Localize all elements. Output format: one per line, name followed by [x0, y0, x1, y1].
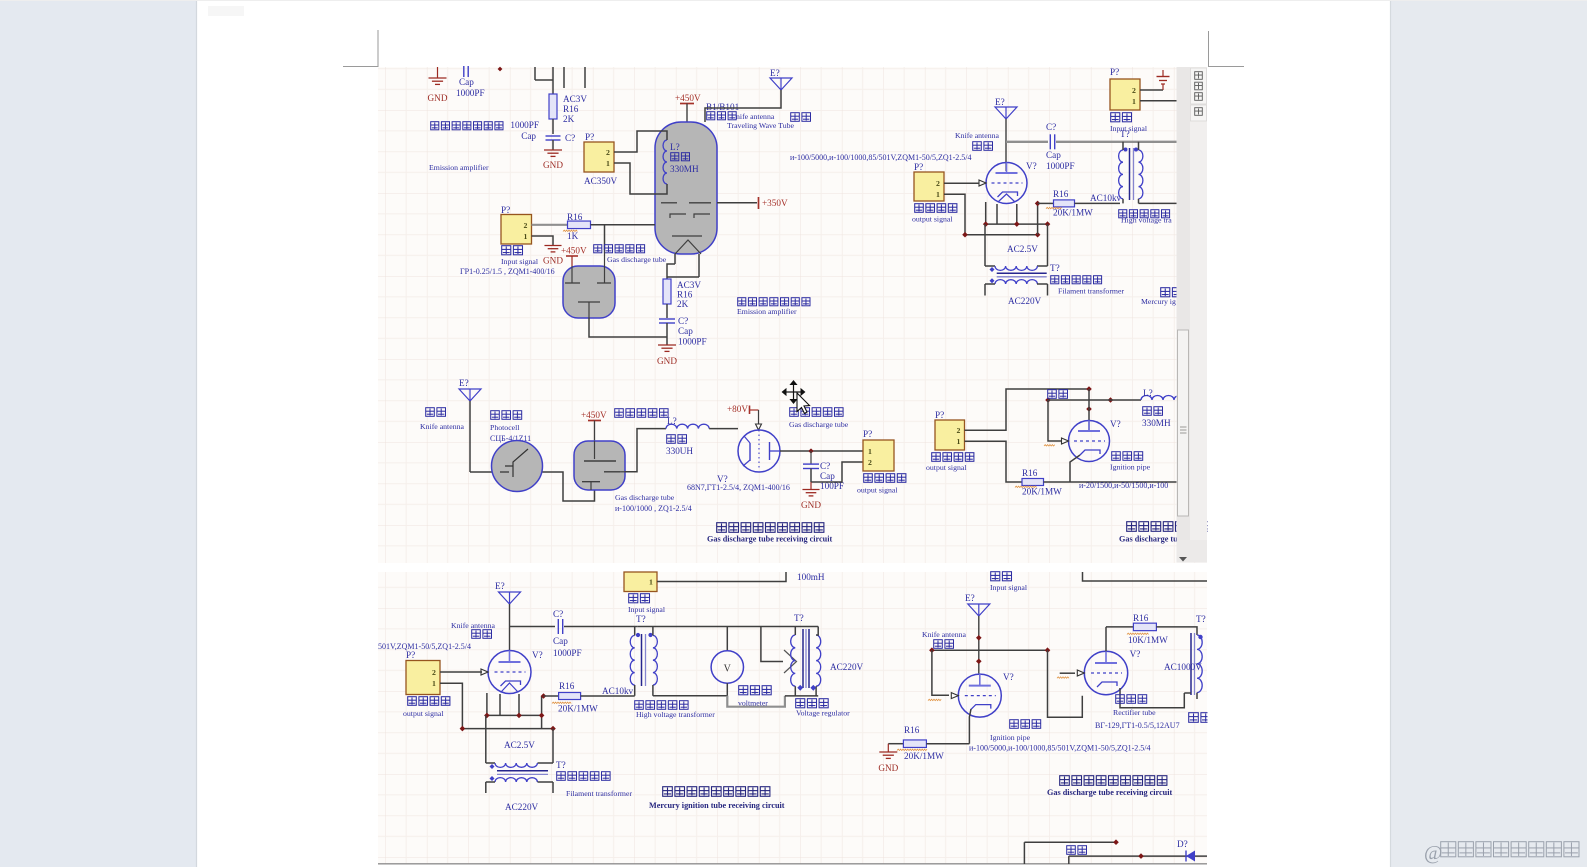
svg-text:10K/1MW: 10K/1MW — [1128, 635, 1168, 645]
wire port I pin1 down — [440, 683, 553, 728]
stub to tube1 grid J — [932, 650, 949, 695]
scrollbar thumb — [1178, 330, 1189, 516]
capacitor C? 1000PF A2 — [546, 135, 561, 137]
svg-text:Voltage regulator: Voltage regulator — [796, 709, 850, 718]
svg-text:E?: E? — [770, 68, 780, 78]
svg-text:V?: V? — [1110, 419, 1121, 429]
svg-text:Knife antenna: Knife antenna — [420, 422, 464, 431]
tube heater — [675, 240, 701, 254]
svg-text:Traveling Wave Tube: Traveling Wave Tube — [727, 121, 794, 130]
wire R16 right AC10kv — [1075, 202, 1121, 204]
wire inductor to tube D2 — [709, 428, 738, 430]
ground GND A1 — [437, 67, 439, 78]
svg-text:68N7,ΓT1-2.5/4, ZQM1-400/16: 68N7,ΓT1-2.5/4, ZQM1-400/16 — [687, 483, 790, 492]
svg-text:1: 1 — [649, 578, 653, 587]
svg-text:1: 1 — [868, 447, 872, 456]
svg-text:501V,ZQM1-50/5,ZQ1-2.5/4: 501V,ZQM1-50/5,ZQ1-2.5/4 — [378, 642, 471, 651]
rail I y715 — [487, 714, 542, 716]
svg-text:330MH: 330MH — [1142, 418, 1171, 428]
svg-text:Cap: Cap — [553, 636, 568, 646]
svg-text:AC350V: AC350V — [584, 176, 618, 186]
svg-text:Gas discharge tube receiving c: Gas discharge tube receiving circuit — [1047, 788, 1172, 797]
capacitor C? Cap 100PF D — [810, 451, 812, 464]
svg-text:Input signal: Input signal — [990, 583, 1028, 592]
svg-text:Input signal: Input signal — [628, 605, 666, 614]
lower schematic sheet — [378, 572, 1207, 864]
lower sheet right clip — [1208, 572, 1216, 864]
svg-text:AC3V: AC3V — [563, 94, 587, 104]
svg-text:Cap: Cap — [820, 471, 835, 481]
wire R16 to tube grid — [591, 224, 656, 226]
svg-text:и-100/1000 , ZQ1-2.5/4: и-100/1000 , ZQ1-2.5/4 — [615, 504, 692, 513]
svg-text:1: 1 — [957, 437, 961, 446]
rail 天线 J — [932, 649, 1048, 651]
top hairline — [0, 0, 1587, 2]
svg-text:B1/B101: B1/B101 — [706, 102, 740, 112]
svg-text:L?: L? — [667, 416, 677, 426]
svg-text:R16: R16 — [1022, 468, 1038, 478]
wire K lower — [1069, 855, 1207, 857]
title 水银引燃管接收电路 — [663, 787, 673, 797]
labels 引燃管 J — [1010, 720, 1019, 729]
label 行波管发射电路 A — [431, 122, 439, 130]
title 气体放电管接收电路 J — [1060, 776, 1070, 786]
capacitor C? Cap 1000PF I — [557, 619, 559, 634]
svg-text:1000PF: 1000PF — [553, 648, 582, 658]
svg-text:P?: P? — [406, 650, 415, 660]
svg-text:1: 1 — [524, 232, 528, 241]
label 输入 Input signal B — [502, 246, 511, 255]
svg-text:ВГ-129,ГT1-0.5/5,12AU7: ВГ-129,ГT1-0.5/5,12AU7 — [1095, 721, 1180, 730]
wire R16 right E — [1044, 481, 1177, 483]
traveling wave tube V (rounded) — [655, 122, 717, 254]
svg-text:output signal: output signal — [912, 215, 953, 224]
svg-text:R16: R16 — [1133, 613, 1149, 623]
svg-text:output signal: output signal — [857, 486, 898, 495]
svg-text:2: 2 — [957, 426, 961, 435]
svg-text:R16: R16 — [1053, 189, 1069, 199]
svg-text:T?: T? — [1050, 263, 1060, 273]
svg-text:2K: 2K — [677, 299, 689, 309]
svg-text:1: 1 — [432, 679, 436, 688]
svg-text:GND: GND — [878, 763, 898, 773]
svg-text:2: 2 — [524, 221, 528, 230]
inductor L? 330MH inside tube — [663, 140, 667, 184]
wire J right branch — [1048, 650, 1083, 717]
wire antenna rail C — [1005, 119, 1007, 171]
svg-text:Gas discharge tube: Gas discharge tube — [615, 493, 675, 502]
svg-text:High voltage transformer: High voltage transformer — [636, 710, 715, 719]
tube V? J1 — [958, 674, 1001, 717]
ground GND J — [879, 751, 897, 753]
rail 天线 E — [1048, 390, 1057, 399]
svg-text:Emission amplifier: Emission amplifier — [429, 163, 489, 172]
wire cap to transformer C — [1056, 141, 1177, 143]
ground GND B2 — [658, 344, 676, 346]
ground GND B — [544, 245, 561, 247]
svg-text:AC220V: AC220V — [1008, 296, 1042, 306]
svg-text:@: @ — [1424, 842, 1442, 864]
svg-text:GND: GND — [657, 356, 677, 366]
voltmeter V — [726, 627, 728, 652]
svg-text:Cap: Cap — [459, 77, 474, 87]
label 气体放电管 D — [615, 409, 624, 418]
svg-text:AC3V: AC3V — [677, 280, 701, 290]
svg-text:Rectifier tube: Rectifier tube — [1113, 708, 1156, 717]
bottom rail I — [653, 695, 727, 697]
svg-text:R16: R16 — [563, 104, 579, 114]
svg-text:1: 1 — [606, 159, 610, 168]
ground GND A2 — [544, 149, 562, 151]
svg-text:Gas discharge tube: Gas discharge tube — [607, 255, 667, 264]
svg-text:P?: P? — [1110, 67, 1119, 77]
wire AC350V port pin2 to coil top — [614, 131, 667, 152]
wire port pin1 right — [1140, 100, 1177, 102]
svg-text:L?: L? — [1143, 388, 1153, 398]
wire H to 100mH — [657, 572, 786, 582]
svg-text:2: 2 — [432, 668, 436, 677]
wire cap to rail right I — [564, 626, 638, 628]
svg-text:AC10kv: AC10kv — [1090, 193, 1122, 203]
wire input rail J — [1083, 572, 1208, 581]
transformer pins C — [1122, 142, 1124, 150]
svg-text:Knife antenna: Knife antenna — [451, 621, 495, 630]
svg-text:T?: T? — [556, 760, 566, 770]
svg-text:output signal: output signal — [926, 463, 967, 472]
left gray panel — [0, 0, 196, 867]
wire R16 to cap — [552, 119, 554, 134]
svg-text:100mH: 100mH — [797, 572, 825, 582]
svg-text:Ignition pipe: Ignition pipe — [1110, 463, 1151, 472]
side panel strip — [1190, 67, 1207, 562]
junction dots E — [1086, 386, 1092, 392]
svg-text:E?: E? — [495, 581, 505, 591]
svg-text:20K/1MW: 20K/1MW — [1053, 208, 1093, 218]
rail top I to voltmeter/variac — [638, 626, 818, 628]
svg-text:E?: E? — [459, 378, 469, 388]
resistor R16 20K/1MW J + GND — [888, 743, 903, 745]
svg-text:C?: C? — [565, 133, 575, 143]
title 气体放电管接收电路 D — [717, 523, 727, 533]
wire cap to gnd B — [666, 323, 668, 345]
wire cap to gnd D — [810, 482, 812, 489]
wire cap bottom to port pin2 — [810, 469, 812, 483]
label 高压变压器 I — [635, 701, 644, 710]
svg-text:Gas discharge tube: Gas discharge tube — [789, 420, 849, 429]
svg-text:AC10kv: AC10kv — [602, 686, 634, 696]
label 光电管 Photocell — [491, 411, 500, 420]
svg-text:P?: P? — [585, 132, 594, 142]
svg-text:1K: 1K — [567, 231, 579, 241]
rail y224 C — [986, 223, 1048, 225]
wire port I pin2 to grid — [440, 671, 482, 673]
wire port C pin2 to grid — [944, 182, 979, 184]
svg-text:P?: P? — [935, 410, 944, 420]
svg-text:Photocell: Photocell — [490, 423, 520, 432]
label 水银 partial — [1161, 288, 1170, 297]
wire photocell to gas tube D — [543, 472, 595, 501]
svg-text:C?: C? — [678, 316, 688, 326]
label 高压变压器 C — [1119, 210, 1127, 218]
svg-text:R16: R16 — [904, 725, 920, 735]
wire K upper — [1024, 841, 1116, 843]
svg-text:GND: GND — [428, 93, 448, 103]
label 行波管发射电路 B — [738, 298, 746, 306]
svg-text:1: 1 — [1132, 97, 1136, 106]
label 行波管 Knife antenna — [707, 112, 715, 120]
svg-text:AC1000V: AC1000V — [1164, 662, 1202, 672]
svg-text:L?: L? — [670, 142, 680, 152]
wire +80V arrow into tube — [758, 410, 760, 424]
transformer coil AC1000V J — [1197, 635, 1202, 693]
resistor R16 2K B — [663, 279, 671, 304]
svg-text:и-100/5000,и-100/1000,85/501V,: и-100/5000,и-100/1000,85/501V,ZQM1-50/5,… — [790, 153, 972, 162]
tube C pins to rail — [985, 202, 987, 224]
upper schematic sheet — [378, 67, 1207, 563]
svg-text:Mercury ignition tube receivin: Mercury ignition tube receiving circuit — [649, 801, 785, 810]
svg-text:2: 2 — [868, 458, 872, 467]
wire antenna to tube — [705, 90, 781, 122]
svg-text:E?: E? — [965, 593, 975, 603]
svg-text:ΓΡ1-0.25/1.5 , ZQM1-400/16: ΓΡ1-0.25/1.5 , ZQM1-400/16 — [460, 267, 555, 276]
junction cap node D — [808, 448, 813, 453]
svg-text:Filament transformer: Filament transformer — [566, 789, 632, 798]
tube E cathode drop — [1070, 455, 1080, 482]
svg-text:20K/1MW: 20K/1MW — [1022, 487, 1062, 497]
svg-text:Ignition pipe: Ignition pipe — [990, 733, 1031, 742]
svg-text:GND: GND — [801, 500, 821, 510]
tube plate bars — [661, 202, 677, 204]
svg-text:и-100/5000,и-100/1000,85/501V,: и-100/5000,и-100/1000,85/501V,ZQM1-50/5,… — [969, 744, 1151, 753]
svg-text:nife antenna: nife antenna — [736, 112, 775, 121]
svg-text:2: 2 — [936, 179, 940, 188]
stub to grid E — [1048, 400, 1063, 441]
svg-text:T?: T? — [636, 614, 646, 624]
svg-text:Gas discharge tu: Gas discharge tu — [1119, 535, 1178, 544]
svg-text:1000PF: 1000PF — [456, 88, 485, 98]
resistor R16 20K/1MW C — [1035, 201, 1041, 207]
svg-text:1: 1 — [936, 190, 940, 199]
capacitor C? Cap 1000PF C — [1049, 134, 1051, 149]
wire gas tube right to inductor — [625, 429, 666, 472]
resistor R16 20K/1MW I — [541, 693, 547, 699]
lower sheet bottom edge — [378, 863, 1207, 865]
svg-text:V: V — [724, 664, 732, 675]
junction dots C row — [962, 232, 968, 238]
svg-text:Cap: Cap — [521, 131, 536, 141]
label 天线 Knife antenna D — [426, 408, 435, 417]
svg-text:Knife antenna: Knife antenna — [955, 131, 999, 140]
tube J1 cathode drop — [969, 709, 971, 744]
tube V? J2 rectifier — [1084, 651, 1127, 694]
labels 整流管 Rectifier tube J — [1116, 695, 1125, 704]
label 输入 Input signal J — [991, 572, 1000, 581]
svg-text:output signal: output signal — [403, 709, 444, 718]
svg-text:GND: GND — [543, 160, 563, 170]
tube I pins to rail — [486, 693, 488, 715]
svg-text:V?: V? — [1026, 161, 1037, 171]
svg-text:1000PF: 1000PF — [1046, 161, 1075, 171]
svg-text:E?: E? — [995, 97, 1005, 107]
svg-text:R16: R16 — [559, 681, 575, 691]
label 高 partial J — [1189, 713, 1199, 723]
wire port E pin1 down-right — [965, 441, 1023, 482]
svg-text:AC220V: AC220V — [505, 802, 539, 812]
gray link voltmeter to variac — [727, 696, 785, 707]
svg-text:High voltage tra: High voltage tra — [1121, 216, 1172, 225]
mouse move cursor — [783, 381, 805, 403]
wire vertical into tube E — [1088, 389, 1090, 430]
wire R16 to cap B — [666, 304, 668, 318]
capacitor C? Cap 1000PF B — [659, 318, 675, 320]
wire port B pin2 to R16 — [532, 224, 568, 226]
svg-text:1000PF: 1000PF — [678, 337, 707, 347]
svg-text:Gas discharge tube receiving c: Gas discharge tube receiving circuit — [707, 535, 832, 544]
wire tube D2 to port — [780, 450, 863, 452]
svg-text:Emission amplifier: Emission amplifier — [737, 307, 797, 316]
svg-text:V?: V? — [532, 650, 543, 660]
wire drop to gas tube — [604, 225, 606, 250]
resistor R16 10K/1MW J — [1106, 626, 1133, 628]
label 气体放电管 B — [594, 245, 602, 253]
labels 引燃管 Ignition pipe — [1112, 452, 1121, 461]
svg-text:20K/1MW: 20K/1MW — [558, 704, 598, 714]
wire port C pin1 down — [944, 194, 1038, 234]
right gray panel — [1390, 0, 1587, 867]
capacitor Cap 1000PF A — [463, 66, 465, 77]
svg-text:AC220V: AC220V — [830, 662, 864, 672]
svg-text:Cap: Cap — [678, 326, 693, 336]
tab 册 — [1191, 105, 1207, 121]
wire antenna to photocell — [469, 401, 471, 472]
svg-text:C?: C? — [553, 609, 563, 619]
scrollbar track — [1177, 67, 1191, 562]
svg-text:Cap: Cap — [1046, 150, 1061, 160]
svg-text:T?: T? — [794, 613, 804, 623]
svg-text:2: 2 — [1132, 86, 1136, 95]
svg-text:2K: 2K — [563, 114, 575, 124]
svg-text:AC2.5V: AC2.5V — [504, 740, 535, 750]
svg-text:и-20/1500,и-50/1500,и-100: и-20/1500,и-50/1500,и-100 — [1079, 481, 1168, 490]
svg-text:Input signal: Input signal — [501, 257, 539, 266]
svg-text:V?: V? — [1130, 649, 1141, 659]
wire AC350V port pin1 to coil bottom — [614, 163, 667, 194]
tube J2 cathode drop right — [1120, 688, 1184, 708]
svg-text:2: 2 — [606, 148, 610, 157]
faint smudge top-left — [208, 6, 244, 16]
text-boundary corner mark top-right — [1209, 31, 1245, 67]
gas discharge tube V? D2 (circle) — [738, 430, 780, 472]
svg-text:V?: V? — [1003, 672, 1014, 682]
port 1 input H — [624, 572, 657, 592]
svg-text:C?: C? — [1046, 122, 1056, 132]
tube grid brackets — [670, 214, 686, 218]
wire port pin2 to gnd stem — [1140, 89, 1163, 91]
svg-text:P?: P? — [863, 429, 872, 439]
tab 剪贴板 — [1191, 68, 1207, 104]
photocell tube D — [492, 441, 543, 492]
wire antenna rail I — [509, 604, 511, 650]
svg-text:Input signal: Input signal — [1110, 124, 1148, 133]
wire cap to gnd — [552, 140, 554, 150]
inductor L? 330UH — [666, 424, 709, 428]
tube J2 plate wire up — [1105, 627, 1107, 651]
scrollbar bottom arrow — [1177, 540, 1208, 563]
wire port E pin2 up-over — [965, 389, 1090, 430]
wire R16 to transformer J — [1156, 627, 1197, 635]
resistor R16 2K (AC3V) — [549, 94, 557, 119]
label 气体放电管 D2 — [790, 408, 799, 417]
svg-text:330UH: 330UH — [666, 446, 693, 456]
tube pins bottom — [674, 254, 676, 264]
wire top stubs — [534, 67, 536, 80]
antenna stem J — [978, 616, 980, 673]
wire +350V — [717, 202, 757, 204]
ground GND D — [802, 489, 819, 491]
svg-text:+80V: +80V — [727, 404, 748, 414]
svg-text:Knife antenna: Knife antenna — [922, 630, 966, 639]
label 天线 K — [1067, 846, 1076, 855]
svg-text:GND: GND — [543, 256, 563, 266]
svg-text:+450V: +450V — [675, 93, 701, 103]
svg-text:+450V: +450V — [561, 246, 587, 256]
svg-text:Filament transformer: Filament transformer — [1058, 287, 1124, 296]
svg-text:AC2.5V: AC2.5V — [1007, 244, 1038, 254]
svg-text:R16: R16 — [677, 290, 693, 300]
stub to tube2 grid J — [1060, 672, 1075, 674]
svg-text:C?: C? — [820, 461, 830, 471]
svg-text:+350V: +350V — [762, 198, 788, 208]
svg-text:P?: P? — [501, 205, 510, 215]
wire port B pin1 to gnd — [532, 236, 554, 245]
svg-text:T?: T? — [1196, 614, 1206, 624]
svg-text:1000PF: 1000PF — [510, 120, 539, 130]
node dot top — [498, 67, 503, 72]
svg-text:330MH: 330MH — [670, 164, 699, 174]
svg-text:P?: P? — [914, 162, 923, 172]
svg-text:20K/1MW: 20K/1MW — [904, 751, 944, 761]
text-boundary corner mark top-left — [343, 30, 378, 67]
gas discharge tube D — [574, 441, 625, 490]
wire gas tube to cap node — [589, 318, 667, 337]
svg-text:+450V: +450V — [581, 410, 607, 420]
inductor L? 330MH E — [1141, 395, 1185, 400]
title 气体放电管 E partial — [1127, 522, 1137, 532]
svg-text:D?: D? — [1177, 839, 1188, 849]
mouse arrow pointer — [797, 393, 810, 414]
tube cathode bar — [672, 235, 702, 237]
svg-text:Mercury ig: Mercury ig — [1141, 297, 1176, 306]
tube V? E (ignition pipe) — [1069, 421, 1110, 462]
gas discharge tube B (small) — [563, 266, 615, 318]
label 天线 B — [791, 113, 800, 122]
ground GND C (inverted) — [1162, 85, 1164, 91]
wire R16 right AC10kv I — [581, 695, 635, 697]
